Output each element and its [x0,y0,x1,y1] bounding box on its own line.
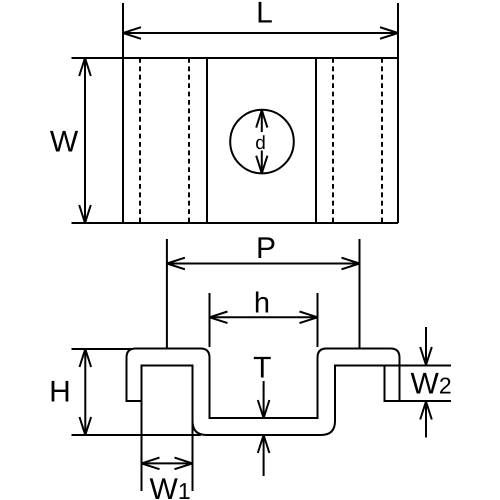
top view: outline rectangle with W extension overhang [72,3,399,223]
label W [50,126,79,159]
label W1 [150,473,191,500]
svg-text:W1: W1 [150,473,191,500]
dimension h extension lines [210,293,318,347]
svg-text:W: W [50,126,79,159]
svg-text:L: L [256,0,273,30]
svg-text:d: d [255,133,266,154]
label T [253,352,271,385]
dimension W1 extension lines [142,366,193,492]
dimension W line with arrows [79,58,91,223]
svg-text:T: T [253,352,271,385]
svg-text:P: P [256,232,276,265]
dimension H extension lines [72,349,202,435]
label W2 [411,368,452,401]
top view: hidden fold lines (dashed) [140,58,382,223]
dimension P extension lines [167,239,360,348]
dimension L line with arrows [123,27,398,39]
svg-text:H: H [49,376,71,409]
label H [49,376,71,409]
dimension H line with arrows [80,349,92,435]
label L [256,0,273,30]
top view: inner bend lines (solid) [207,58,316,223]
svg-text:W2: W2 [411,368,452,401]
label d [255,133,266,154]
svg-text:h: h [254,288,270,320]
section profile outline [127,349,400,436]
hole circle [230,110,294,174]
dimension W1 line with arrows [142,458,193,470]
dimension d arrows [256,110,267,173]
dimension W2 arrows [420,327,432,438]
dimension h line with arrows [210,312,318,324]
label h [254,288,270,320]
dimension P line with arrows [167,258,360,270]
label P [256,232,276,265]
dimension T arrows [258,381,270,476]
dimension W2 extension lines [335,366,451,402]
